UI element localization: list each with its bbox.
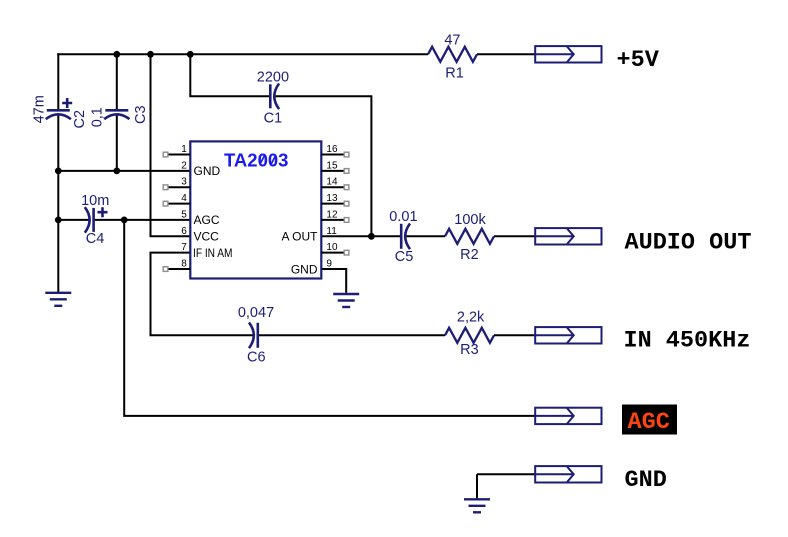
label TA2003 — [224, 150, 288, 171]
svg-text:IF IN AM: IF IN AM — [193, 246, 233, 260]
svg-text:3: 3 — [181, 177, 187, 188]
wire C4 row left — [58, 219, 90, 221]
svg-text:10m: 10m — [81, 193, 109, 209]
pin 1 — [163, 144, 190, 157]
svg-text:C2: C2 — [72, 110, 88, 129]
ground left — [45, 293, 71, 306]
wire C6 to R3 — [258, 334, 445, 336]
svg-text:R3: R3 — [460, 342, 479, 358]
node junction A OUT row — [368, 233, 375, 240]
node junction C4 row left — [55, 217, 62, 224]
label AGC — [622, 405, 677, 437]
wire C5 to R2 — [406, 235, 445, 237]
node junction GND row C3 — [113, 168, 120, 175]
pin 10 — [321, 242, 349, 255]
svg-text:47: 47 — [444, 32, 460, 48]
wire pin 9 to ground — [321, 269, 346, 293]
svg-text:C4: C4 — [86, 231, 105, 247]
capacitor C5 — [401, 224, 410, 250]
svg-text:R2: R2 — [460, 247, 479, 263]
svg-text:C6: C6 — [247, 350, 266, 366]
svg-text:AGC: AGC — [628, 409, 670, 436]
pin 13 — [321, 193, 349, 206]
svg-text:0,1: 0,1 — [90, 107, 106, 127]
wire bus to C1 left — [190, 54, 269, 96]
pin 12 — [321, 209, 349, 222]
svg-text:10: 10 — [326, 242, 338, 253]
pin 4 — [163, 193, 190, 206]
svg-text:R1: R1 — [445, 65, 464, 81]
svg-text:9: 9 — [326, 259, 332, 270]
svg-text:6: 6 — [181, 226, 187, 237]
svg-text:GND: GND — [625, 467, 667, 494]
connector GND — [535, 466, 601, 482]
wire vertical below C2 down to ground — [57, 115, 59, 293]
svg-text:VCC: VCC — [194, 230, 220, 244]
svg-text:A OUT: A OUT — [281, 230, 318, 244]
node junction GND row C2 — [55, 168, 62, 175]
svg-text:TA2003: TA2003 — [224, 150, 288, 171]
capacitor C3 — [104, 110, 129, 119]
svg-text:4: 4 — [181, 193, 187, 204]
svg-text:14: 14 — [326, 177, 338, 188]
wire GND row pin 2 — [58, 170, 190, 172]
svg-text:C3: C3 — [133, 105, 149, 124]
ground GND row — [464, 499, 490, 512]
svg-text:2200: 2200 — [257, 70, 289, 86]
connector IN 450KHz — [535, 327, 601, 343]
svg-text:15: 15 — [326, 160, 338, 171]
ground pin9 — [333, 294, 359, 307]
svg-text:1: 1 — [181, 144, 187, 155]
svg-text:5: 5 — [181, 209, 187, 220]
svg-text:0.01: 0.01 — [389, 209, 417, 225]
svg-text:47m: 47m — [32, 95, 48, 123]
wire pin 7 branch down to IN row — [151, 253, 255, 336]
svg-text:2: 2 — [181, 160, 187, 171]
wire VCC branch bus to pin 6 — [151, 53, 191, 236]
svg-text:2,2k: 2,2k — [457, 310, 485, 326]
svg-text:C5: C5 — [395, 249, 414, 265]
svg-text:16: 16 — [326, 144, 338, 155]
node junction bus-C1 — [187, 51, 194, 58]
connector AUDIO OUT — [535, 228, 601, 244]
wire R3 to IN connector — [494, 334, 536, 336]
pin 14 — [321, 177, 349, 190]
svg-text:GND: GND — [194, 164, 221, 178]
svg-text:7: 7 — [181, 242, 187, 253]
svg-text:0,047: 0,047 — [238, 305, 274, 321]
svg-text:12: 12 — [326, 209, 338, 220]
wire AGC branch down to connector row — [124, 220, 536, 416]
node junction C4-AGC — [121, 217, 128, 224]
wire C4 to pin 5 — [94, 219, 191, 221]
pin 15 — [321, 160, 349, 173]
node junction bus-C3 — [113, 51, 120, 58]
svg-text:11: 11 — [326, 226, 337, 237]
wire top bus right segment (R1 to connector) — [477, 53, 536, 55]
svg-text:+5V: +5V — [617, 47, 660, 74]
svg-text:8: 8 — [181, 259, 187, 270]
wire vertical above C3 — [116, 53, 118, 110]
svg-text:IN 450KHz: IN 450KHz — [624, 327, 751, 354]
pin 16 — [321, 144, 349, 157]
wire pin 11 A OUT to C5 — [321, 235, 400, 237]
connector +5V — [535, 46, 601, 62]
svg-text:AGC: AGC — [194, 213, 220, 227]
pin 3 — [163, 177, 190, 190]
wire R2 to AUDIO connector — [494, 235, 536, 237]
svg-text:C1: C1 — [264, 110, 283, 126]
resistor R2 — [445, 229, 494, 244]
svg-text:AUDIO OUT: AUDIO OUT — [625, 229, 752, 256]
svg-text:100k: 100k — [454, 212, 486, 228]
svg-text:GND: GND — [291, 262, 318, 276]
wire vertical below C3 — [116, 115, 118, 171]
wire top bus left segment — [57, 53, 428, 55]
wire C1 right down to A OUT row — [275, 96, 372, 236]
op-amp U1 TA2003 IC box — [190, 141, 321, 278]
resistor R1 — [428, 47, 477, 62]
connector AGC — [535, 408, 601, 424]
pin 8 — [163, 259, 190, 272]
capacitor C2 — [46, 98, 72, 119]
resistor R3 — [445, 328, 494, 343]
wire vertical above C2 — [57, 53, 59, 110]
node junction bus-VCC — [147, 51, 154, 58]
capacitor C6 — [249, 323, 258, 349]
svg-text:13: 13 — [326, 193, 338, 204]
capacitor C1 — [270, 84, 279, 110]
capacitor C4 — [85, 207, 108, 233]
wire GND connector to ground — [477, 474, 536, 499]
